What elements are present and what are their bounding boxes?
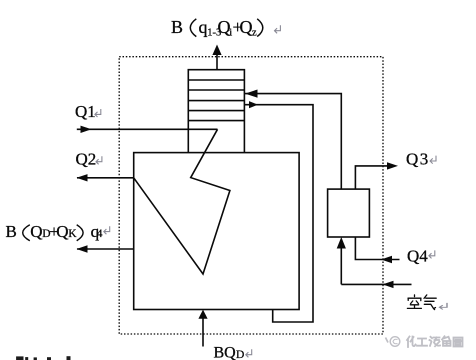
- label kongqi (air) char 气: [424, 295, 436, 310]
- label B(q1-3Qi+Qz): [171, 17, 263, 39]
- arrowhead air up into fan: [337, 237, 346, 249]
- furnace flame zigzag: [134, 129, 230, 274]
- paragraph mark air: [439, 303, 447, 310]
- arrowhead Q1 right: [81, 126, 92, 133]
- wire flue gas exit (stack top): [216, 54, 218, 70]
- paragraph mark Q1: [95, 109, 101, 117]
- wire air inlet line: [341, 249, 411, 285]
- wire Q1 inlet line: [77, 128, 218, 130]
- svg-text:Q2: Q2: [76, 150, 97, 169]
- arrowhead Q3 right: [387, 162, 398, 169]
- wire Q4 line: [355, 237, 399, 260]
- wire hot air from preheater down to furnace: [244, 105, 313, 322]
- arrowhead BQD up: [198, 310, 207, 319]
- svg-text:Q: Q: [56, 222, 68, 241]
- paragraph mark Q4: [429, 250, 435, 258]
- main boiler box: [134, 153, 299, 310]
- dashed system boundary: [119, 57, 383, 334]
- air preheater stack: [188, 70, 244, 153]
- bottom-left cut-off text remnants: [16, 356, 70, 360]
- watermark text huagong shebei quan: [407, 336, 463, 347]
- svg-text:Q1: Q1: [75, 102, 96, 121]
- svg-text:Q: Q: [30, 222, 42, 241]
- arrowhead Q4 left: [381, 256, 392, 263]
- paragraph mark Q2: [96, 156, 102, 164]
- svg-text:Q: Q: [240, 17, 253, 37]
- arrowhead hot air right: [249, 101, 258, 108]
- watermark circle logo: [390, 337, 400, 347]
- svg-text:Q3: Q3: [406, 149, 430, 168]
- svg-text:BQ: BQ: [214, 345, 237, 360]
- svg-text:K: K: [68, 228, 77, 240]
- label kongqi (air) char 空: [407, 295, 421, 309]
- wire Q3 line: [355, 166, 389, 189]
- paragraph mark after top label: [275, 25, 281, 33]
- arrowhead flue gas up: [212, 45, 221, 56]
- paragraph mark Q3: [430, 156, 436, 164]
- watermark tick mark: [386, 338, 389, 343]
- label BQD: [214, 345, 245, 360]
- arrowhead Q2 left: [77, 174, 88, 181]
- fan box: [328, 189, 370, 237]
- label B(QD+QK)q4: [6, 222, 103, 241]
- svg-text:D: D: [236, 349, 244, 360]
- wire air into preheater: [245, 94, 342, 190]
- arrowhead air inlet left: [383, 281, 394, 288]
- paragraph mark B(QD+QK)q4: [104, 226, 110, 234]
- svg-text:Q4: Q4: [407, 247, 428, 266]
- svg-text:B: B: [6, 222, 17, 241]
- wire B(QD+QK)q4 line: [77, 248, 134, 250]
- svg-text:z: z: [252, 28, 257, 39]
- paragraph mark BQD: [246, 349, 252, 357]
- arrowhead into preheater left: [245, 90, 258, 98]
- svg-text:B: B: [171, 17, 183, 37]
- svg-text:q: q: [199, 17, 208, 37]
- arrowhead B(QD+QK) left: [77, 245, 88, 252]
- wire Q2 outlet line: [77, 177, 134, 179]
- wire BQD fuel inlet: [202, 318, 204, 347]
- svg-text:4: 4: [97, 228, 103, 240]
